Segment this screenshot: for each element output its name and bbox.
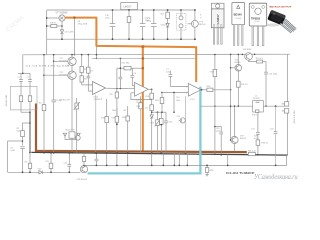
resistor R16 (feedback column) — [145, 89, 154, 154]
wire: collector wire to VT7 — [47, 17, 59, 19]
transistor VT1 — [54, 54, 77, 66]
svg-text:2: 2 — [186, 93, 187, 95]
capacitor C11 — [147, 9, 157, 40]
wire: top rail of PSU strip — [47, 9, 196, 11]
wire: rail ties to sense wire — [106, 153, 229, 166]
svg-text:TO-3P: TO-3P — [254, 21, 260, 23]
capacitor C18 column — [214, 126, 223, 156]
capacitor C19 — [264, 72, 278, 107]
resistor R21 + zener VD10 column — [161, 9, 170, 40]
svg-text:R19 1k: R19 1k — [50, 23, 56, 25]
transistor VT8 (lower PNP) — [230, 105, 259, 151]
svg-text:100n: 100n — [176, 100, 180, 102]
svg-text:2: 2 — [90, 91, 91, 93]
svg-text:R3 MLT-2H: R3 MLT-2H — [59, 99, 70, 101]
faint diagonal watermark top-left — [5, 15, 25, 33]
svg-text:R31 0,15: R31 0,15 — [248, 151, 256, 153]
resistor R11 — [45, 152, 52, 173]
transistor VT10 (bias) — [177, 116, 186, 123]
svg-text:C6 0,47M: C6 0,47M — [65, 31, 74, 33]
transistor VT6 2N3055 — [242, 49, 256, 61]
dual transistor VT8 (dashed thermal box) — [177, 9, 186, 40]
wire: input drop from frame corner — [22, 55, 24, 74]
wire: IC2 input wires — [162, 86, 188, 113]
wire: speaker return with capacitor C20 — [270, 106, 278, 166]
transistor VT5 — [231, 54, 242, 71]
svg-text:160k: 160k — [112, 110, 116, 112]
svg-text:TL082CP: TL082CP — [94, 99, 103, 101]
svg-text:R24 0,1: R24 0,1 — [256, 58, 264, 60]
svg-text:TO-126: TO-126 — [235, 18, 241, 20]
transistor VT7 (regulator pass transistor) — [56, 13, 69, 21]
zener VD (below VT7) — [60, 21, 73, 40]
capacitor C7 column — [166, 69, 172, 87]
wire: bias cluster top link — [152, 111, 166, 113]
resistor R2 — [17, 122, 31, 145]
resistor R3 (in box) — [19, 96, 22, 112]
resistor R23 column — [155, 92, 164, 113]
trimmer R7 — [59, 98, 79, 153]
resistor R19 (base resistor) — [46, 23, 62, 28]
wire: left vertical feed — [46, 10, 48, 55]
svg-text:100n: 100n — [166, 71, 170, 73]
wire: output node line — [200, 105, 284, 107]
wire: IC1 supply column — [95, 95, 97, 154]
wire: bottom rail of PSU strip — [47, 38, 196, 40]
svg-text:C2: C2 — [27, 77, 29, 79]
svg-text:VD10: VD10 — [161, 24, 167, 26]
wire: column x230 — [230, 54, 232, 140]
svg-text:3: 3 — [186, 86, 187, 88]
wire: bottom ground wire left — [8, 171, 81, 173]
svg-text:R13 36k: R13 36k — [122, 62, 129, 64]
resistor R4 (in box) — [28, 96, 31, 112]
wire: left ground stub — [8, 140, 24, 172]
inductor L1 box — [252, 95, 263, 116]
capacitor C5 — [11, 147, 25, 173]
wire: black negative rail — [31, 152, 287, 155]
op-amp IC2.1 — [186, 83, 201, 101]
svg-text:TIP3055: TIP3055 — [251, 17, 261, 20]
wire: IC1.2 feedback loop — [131, 89, 153, 100]
speaker terminal - — [282, 109, 289, 113]
svg-text:BC546B: BC546B — [60, 61, 68, 63]
svg-text:100n: 100n — [105, 18, 109, 20]
wire: column C6 — [51, 54, 62, 154]
wire: rail link x96 — [95, 46, 97, 59]
svg-text:C1: C1 — [18, 77, 20, 79]
svg-text:IC2.1: IC2.1 — [190, 99, 196, 101]
svg-text:R25 10: R25 10 — [241, 84, 248, 86]
input connector box — [11, 86, 38, 110]
svg-text:BD139: BD139 — [235, 62, 241, 64]
resistor R10 column — [101, 99, 109, 154]
transistor VT9 — [188, 9, 207, 40]
resistor R25 — [237, 71, 249, 107]
svg-text:УСамоделкина.ru: УСамоделкина.ru — [254, 173, 298, 181]
wire: IC2 supply column — [185, 96, 187, 154]
regulator U LM317 box — [121, 3, 138, 10]
wire: amp top +rail — [23, 53, 290, 56]
op-amp IC1.2 — [135, 82, 149, 104]
resistor R (ADJ divider) — [127, 9, 131, 40]
svg-text:VD1 D522: VD1 D522 — [65, 130, 75, 132]
svg-text:2N 3055: 2N 3055 — [243, 49, 252, 51]
svg-text:470µ 100B: 470µ 100B — [78, 23, 88, 25]
trimmer R22 — [160, 112, 164, 154]
svg-text:C1-C4 K73-17B 1µ 63B: C1-C4 K73-17B 1µ 63B — [26, 66, 71, 68]
wire: orange +rail from VT7 to amplifier — [65, 18, 196, 82]
wire: join below box — [21, 111, 30, 113]
diode cluster VD1 — [63, 130, 80, 154]
transistor VT2 — [44, 66, 76, 131]
svg-text:BC546B: BC546B — [60, 74, 68, 76]
resistor R20 column — [122, 106, 130, 154]
speaker terminal + — [282, 102, 289, 106]
resistor R8b above VT3 — [82, 153, 85, 166]
svg-text:LM317: LM317 — [216, 14, 220, 24]
capacitor C2 — [27, 73, 32, 96]
resistor/cap column x88 — [86, 54, 93, 91]
resistor R31 (series on rail) — [248, 151, 256, 156]
svg-text:BD912: BD912 — [240, 138, 247, 140]
transistor photo — [267, 10, 296, 33]
resistor R5 column — [80, 54, 93, 85]
wire: orange branch down mid-board — [142, 47, 144, 151]
resistor R26 at IC2 output — [201, 86, 232, 92]
zobel chain C17/R30 down — [251, 112, 269, 156]
svg-text:BYX 4-8 OM: BYX 4-8 OM — [294, 111, 296, 123]
svg-text:VT7 BD908: VT7 BD908 — [56, 13, 69, 15]
svg-text:56k: 56k — [17, 130, 20, 132]
svg-text:BX AC 18B: BX AC 18B — [5, 95, 8, 106]
svg-text:IC1-IC2 TL082CP: IC1-IC2 TL082CP — [226, 171, 254, 175]
svg-text:R30 10: R30 10 — [261, 143, 268, 145]
capacitor C8 column — [73, 16, 88, 55]
resistor R15 under IC1.2 — [136, 96, 142, 153]
svg-text:VT3 BC546: VT3 BC546 — [77, 179, 88, 181]
wire: bottom sense wire — [84, 164, 287, 166]
capacitor C14 — [64, 152, 72, 173]
resistor R9 — [25, 152, 32, 174]
package BD140 TO-126 — [232, 3, 245, 46]
svg-text:VT4: VT4 — [177, 116, 180, 118]
svg-text:3: 3 — [90, 84, 91, 86]
svg-text:4k7: 4k7 — [123, 110, 126, 112]
wire: short ties rail to mid wire — [151, 153, 188, 166]
wire: right border — [287, 54, 289, 101]
label: output — [294, 111, 296, 123]
package LM317 TO-220 — [200, 3, 224, 44]
transistor VT3 (sense) — [77, 165, 88, 181]
capacitor C15 column — [95, 152, 99, 166]
op-amp IC1.1 — [90, 82, 105, 102]
cap column between op-amps — [119, 58, 123, 88]
svg-text:BD KLP-80 POT: BD KLP-80 POT — [270, 6, 293, 8]
svg-text:BD140: BD140 — [199, 24, 206, 26]
wire: secondary top rail — [92, 57, 196, 59]
wire: IC1.1 output link — [106, 88, 135, 90]
wire: column R1 — [39, 54, 46, 154]
wire: brown highlighted rail — [36, 104, 247, 153]
trimmer R17 — [150, 112, 160, 153]
capacitor C16 — [164, 112, 173, 153]
svg-text:BD140: BD140 — [234, 12, 243, 16]
diode VD2 on ground wire — [38, 169, 43, 174]
capacitor C10 — [105, 9, 115, 40]
resistor R18 column — [111, 108, 118, 154]
resistor R24 — [249, 58, 267, 72]
svg-text:10 BUT: 10 BUT — [253, 98, 261, 100]
resistor R22 column — [210, 54, 216, 156]
wire: dark wire from input to rail — [29, 112, 31, 152]
resistor R8 column — [110, 68, 119, 116]
svg-text:LM317: LM317 — [123, 4, 131, 8]
svg-text:C19 100p: C19 100p — [268, 73, 278, 75]
wire: cyan feedback wire — [88, 87, 201, 174]
resistor R13 — [117, 62, 144, 70]
capacitor C9 — [130, 68, 137, 86]
capacitor C1 — [18, 73, 23, 96]
package TIP3055 TO-218 — [249, 3, 266, 46]
capacitor C12 — [140, 9, 150, 40]
resistor R30 — [205, 165, 214, 176]
